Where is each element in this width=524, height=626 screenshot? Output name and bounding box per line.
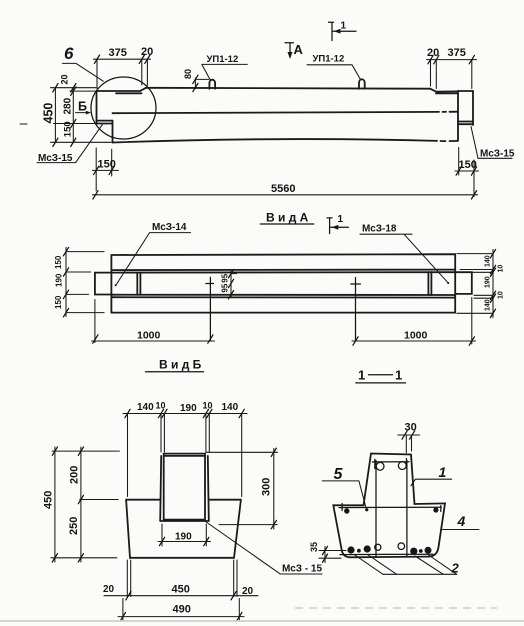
svg-text:140: 140 — [222, 402, 239, 413]
label MS3-18 with leader — [360, 224, 449, 285]
svg-text:80: 80 — [183, 69, 193, 79]
flange bar dots — [344, 508, 349, 513]
stirrup bottom line — [340, 553, 433, 555]
svg-text:150: 150 — [54, 255, 63, 269]
svg-text:МсЗ-14: МсЗ-14 — [152, 222, 187, 233]
section 1-1 concrete outline — [333, 454, 445, 558]
section B flange outline — [126, 500, 241, 558]
beam right end block — [458, 91, 473, 141]
label UP1-12 left with leader — [202, 54, 248, 80]
dim 95 95 at cross — [220, 269, 236, 299]
svg-text:200: 200 — [69, 466, 81, 484]
svg-text:190: 190 — [485, 276, 492, 288]
label MS3-15 left with leader — [37, 125, 102, 165]
svg-text:150: 150 — [459, 159, 477, 171]
section B web outline — [160, 454, 209, 521]
section mark 1 top — [329, 20, 357, 40]
svg-text:190: 190 — [175, 532, 192, 543]
svg-text:УП1-12: УП1-12 — [313, 54, 345, 65]
svg-text:140: 140 — [485, 255, 492, 267]
svg-text:375: 375 — [109, 47, 127, 59]
svg-text:20: 20 — [60, 74, 70, 84]
bottom dim 490 — [118, 599, 244, 621]
svg-text:1000: 1000 — [137, 329, 161, 341]
label 5 with leader — [322, 466, 367, 510]
plan left stiffener lines — [137, 273, 140, 295]
dim 375/20 top left — [94, 46, 154, 89]
left dims 450 and 200/250 — [43, 447, 120, 562]
svg-text:В и д Б: В и д Б — [159, 358, 202, 372]
svg-text:10: 10 — [156, 401, 166, 411]
svg-text:190: 190 — [55, 273, 64, 287]
svg-text:250: 250 — [68, 517, 80, 535]
svg-text:450: 450 — [42, 103, 56, 124]
svg-text:300: 300 — [261, 478, 273, 496]
label MS3-15 bottom with leader — [206, 522, 323, 575]
svg-text:6: 6 — [64, 44, 74, 63]
dim 35 left — [309, 542, 346, 563]
flange bar line with end ticks — [339, 504, 441, 512]
svg-text:1: 1 — [338, 214, 344, 225]
title Vid A — [260, 210, 314, 224]
plan outer rectangle — [111, 254, 455, 312]
bottom rebar dots left group — [347, 545, 370, 553]
svg-text:190: 190 — [180, 403, 197, 414]
svg-text:1: 1 — [439, 464, 447, 480]
title 1 - 1 — [356, 368, 406, 383]
svg-text:280: 280 — [63, 97, 74, 114]
bottom dims 20 450 20 — [103, 560, 258, 600]
right dim 300 — [207, 448, 278, 529]
svg-text:МсЗ-18: МсЗ-18 — [362, 224, 397, 235]
dim 1000 left — [92, 300, 215, 344]
svg-text:150: 150 — [98, 159, 116, 171]
svg-text:10: 10 — [498, 291, 505, 299]
svg-text:В и д А: В и д А — [266, 210, 309, 224]
lifting hook UP1-12 right — [359, 79, 365, 89]
svg-text:10: 10 — [203, 401, 213, 411]
svg-text:Б: Б — [78, 100, 87, 114]
faint scan line bottom dashed — [295, 607, 497, 609]
svg-text:95: 95 — [220, 283, 229, 292]
svg-text:1: 1 — [395, 368, 402, 383]
dim 80 hook height — [183, 69, 209, 92]
svg-text:450: 450 — [43, 491, 55, 509]
top rebar circles — [376, 462, 384, 470]
label MS3-14 with leader — [115, 222, 191, 286]
label 6 — [63, 44, 104, 81]
plan left side dims 150 190 150 — [54, 247, 104, 316]
dim 150 below right end with MS3-15 label — [455, 148, 479, 197]
label 4 with leader — [441, 513, 480, 530]
stirrup leg right — [406, 461, 408, 557]
svg-text:1: 1 — [341, 20, 347, 31]
plan right tongue — [455, 272, 472, 294]
svg-text:1: 1 — [358, 368, 365, 383]
top dims 140 10 190 10 140 — [123, 401, 247, 497]
section mark 1 middle — [327, 214, 349, 234]
label 2 with leaders — [355, 555, 460, 576]
svg-text:20: 20 — [103, 584, 115, 595]
svg-text:20: 20 — [141, 46, 153, 58]
label UP1-12 right with leader — [307, 54, 361, 81]
svg-text:150: 150 — [63, 121, 74, 137]
bottom stirrup hook circles — [375, 544, 381, 550]
stirrup leg left — [375, 461, 377, 557]
lifting point cross left — [206, 277, 214, 341]
dim 1000 right — [352, 298, 476, 346]
stray tick left margin — [20, 123, 27, 125]
svg-text:30: 30 — [405, 421, 417, 433]
svg-text:5560: 5560 — [271, 183, 295, 195]
svg-text:УП1-12: УП1-12 — [207, 54, 239, 65]
svg-text:140: 140 — [137, 402, 154, 413]
dim 20/375 top right — [427, 47, 477, 89]
title Vid B — [146, 358, 204, 372]
detail circle 6 — [91, 77, 156, 139]
svg-text:А: А — [294, 42, 304, 57]
svg-text:140: 140 — [485, 299, 492, 311]
left side dims 450 / 20 280 150 — [42, 74, 112, 146]
svg-text:20: 20 — [242, 586, 254, 597]
faint scan line page bottom — [0, 620, 524, 622]
dim 5560 overall — [93, 183, 478, 199]
plan right side dims 140 10 190 10 140 — [457, 249, 505, 317]
view arrow B label — [76, 100, 91, 115]
svg-text:150: 150 — [54, 295, 63, 309]
beam elevation outline — [97, 88, 459, 143]
lifting hook UP1-12 left — [209, 80, 215, 89]
svg-text:375: 375 — [448, 47, 466, 59]
svg-text:1000: 1000 — [404, 329, 428, 341]
svg-text:490: 490 — [173, 604, 191, 616]
top bar line with end ticks — [372, 459, 409, 469]
plan inner flange lines — [111, 270, 455, 298]
label MS3-15 right with leader — [471, 127, 515, 160]
plan left tongue — [95, 273, 112, 295]
svg-text:35: 35 — [309, 542, 319, 552]
svg-text:4: 4 — [457, 513, 466, 529]
label 1 with leader — [411, 464, 452, 486]
svg-text:МсЗ - 15: МсЗ - 15 — [282, 564, 322, 575]
lifting point cross right — [351, 278, 361, 342]
bottom rebar dots right group — [410, 547, 431, 555]
svg-text:450: 450 — [172, 584, 190, 596]
svg-text:10: 10 — [498, 265, 505, 273]
inner dim 190 — [158, 524, 211, 546]
plan right stiffener lines — [428, 272, 431, 295]
dim 30 top — [398, 421, 420, 453]
view arrow A — [285, 42, 304, 59]
dim 150 below left end — [92, 148, 118, 191]
svg-text:95: 95 — [220, 273, 229, 282]
svg-text:20: 20 — [427, 47, 439, 59]
